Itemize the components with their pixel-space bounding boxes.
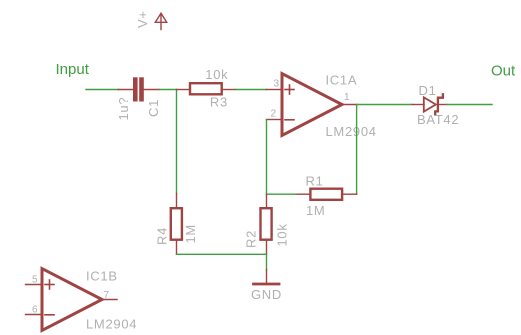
resistor R3: [177, 83, 236, 94]
ground GND: [254, 270, 280, 284]
svg-text:R3: R3: [210, 95, 228, 110]
svg-text:10k: 10k: [275, 223, 290, 246]
wire: ground net down to GND: [266, 254, 268, 269]
wire: output node to D1: [357, 104, 413, 106]
svg-text:C1: C1: [146, 99, 161, 117]
svg-text:10k: 10k: [205, 67, 228, 82]
wire: IC1A pin 2 down to inverting node: [266, 120, 268, 195]
power symbol V+: [155, 13, 166, 29]
wire: C1 to node A: [159, 89, 177, 91]
svg-text:IC1A: IC1A: [326, 72, 358, 87]
svg-text:R4: R4: [155, 227, 170, 245]
wire: R4 bottom to R2 bottom (ground net): [177, 253, 267, 255]
wire: D1 to Out: [447, 104, 492, 106]
diode D1: [413, 94, 448, 114]
svg-text:1u?: 1u?: [116, 97, 131, 121]
svg-text:IC1B: IC1B: [86, 268, 118, 283]
svg-text:7: 7: [104, 290, 110, 301]
svg-text:5: 5: [32, 275, 38, 286]
op-amp IC1A: [267, 74, 358, 136]
svg-text:R1: R1: [306, 174, 324, 189]
svg-text:D1: D1: [419, 83, 437, 98]
svg-text:1M: 1M: [183, 224, 198, 243]
wire: inverting node to R1: [267, 193, 296, 195]
wire: feedback down from output node: [356, 105, 358, 195]
svg-text:Input: Input: [56, 61, 90, 78]
svg-text:6: 6: [32, 305, 38, 316]
svg-text:Out: Out: [491, 63, 516, 80]
svg-text:GND: GND: [251, 287, 282, 302]
wire: input net: [86, 89, 119, 91]
resistor R2: [261, 194, 272, 253]
svg-text:1: 1: [344, 92, 350, 103]
capacitor C1: [119, 77, 160, 101]
wire: R3 to IC1A pin 3: [236, 89, 267, 91]
svg-text:R2: R2: [244, 230, 259, 248]
svg-text:3: 3: [273, 79, 279, 90]
svg-text:LM2904: LM2904: [86, 316, 137, 331]
resistor R4: [171, 194, 182, 255]
svg-text:LM2904: LM2904: [326, 124, 377, 139]
svg-text:BAT42: BAT42: [417, 112, 459, 127]
svg-text:V+: V+: [135, 10, 150, 28]
op-amp IC1B: [26, 269, 118, 331]
svg-text:1M: 1M: [306, 203, 325, 218]
resistor R1: [296, 189, 357, 200]
svg-text:2: 2: [270, 109, 276, 120]
wire: node A down to R4: [176, 90, 178, 194]
